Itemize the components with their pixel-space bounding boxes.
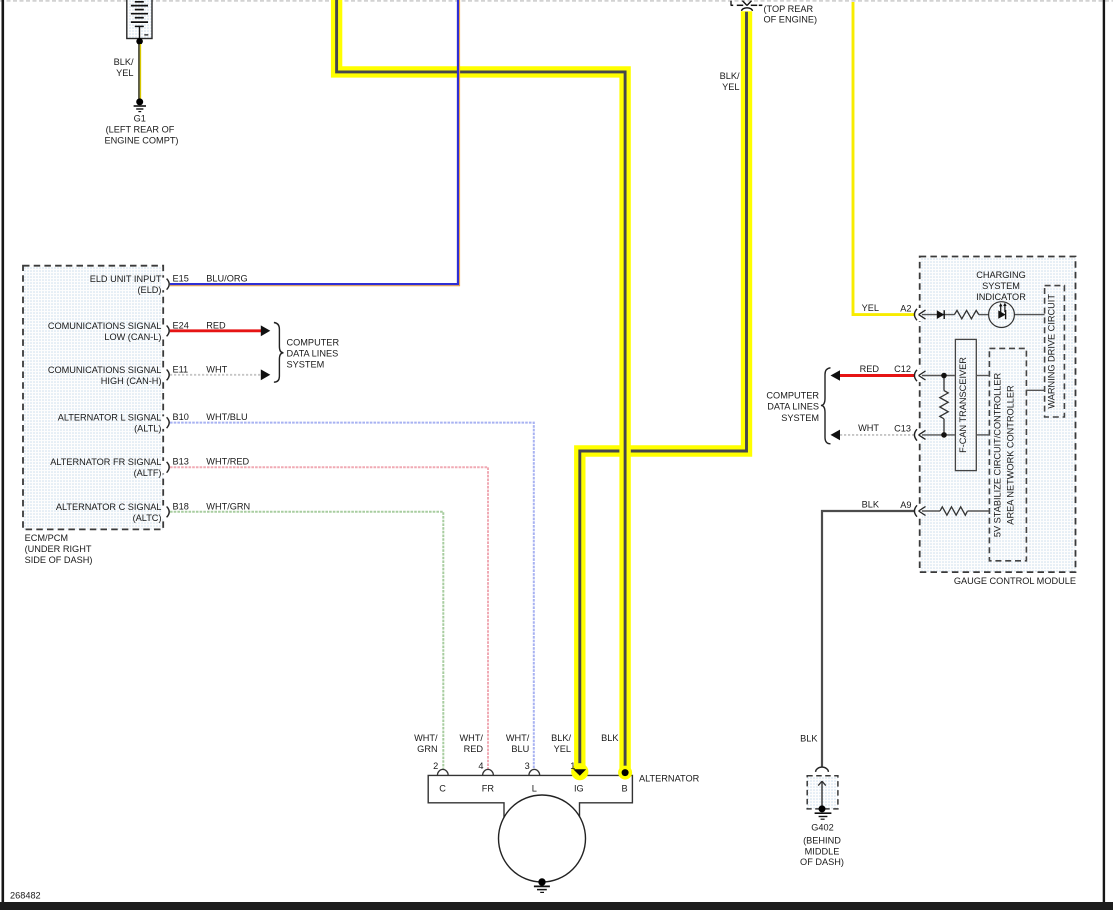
svg-text:BLK: BLK [800,734,818,744]
svg-text:DATA LINES: DATA LINES [287,349,339,359]
svg-text:ALTERNATOR FR SIGNAL: ALTERNATOR FR SIGNAL [50,457,161,467]
resistor (indicator) [954,310,978,318]
node: alternator B terminal [622,769,629,776]
svg-text:(ALTC): (ALTC) [133,513,162,523]
svg-text:1: 1 [570,761,575,771]
brace: computer data lines grouping (right) [821,368,831,444]
wire BLK/YEL highlighted: ignition feed to alternator IG terminal [580,11,747,772]
svg-text:(BEHIND: (BEHIND [803,835,841,845]
svg-text:268482: 268482 [10,891,41,901]
pin 3 bump (L) [529,769,540,775]
wire BLK highlighted: battery feed to alternator B terminal [337,0,625,770]
arrowhead CAN-L [261,325,271,336]
svg-text:WHT/: WHT/ [414,733,438,743]
svg-text:SIDE OF DASH): SIDE OF DASH) [25,555,93,565]
arrowhead C12 (left) [831,370,841,381]
ground G402 symbol [815,805,832,819]
svg-text:YEL: YEL [554,744,571,754]
gauge control module box [920,257,1076,573]
ECM/PCM module box [23,266,163,530]
svg-text:(UNDER RIGHT: (UNDER RIGHT [25,544,92,554]
svg-text:BLK/: BLK/ [720,71,740,81]
svg-text:RED: RED [860,364,880,374]
svg-text:DATA LINES: DATA LINES [767,402,819,412]
alternator case ground [534,878,550,892]
svg-text:C13: C13 [894,424,911,434]
pin bump G402 [816,767,829,772]
svg-text:GAUGE CONTROL MODULE: GAUGE CONTROL MODULE [954,576,1076,586]
wire RED to gauge pin C12 [840,374,915,377]
svg-text:SYSTEM: SYSTEM [982,281,1020,291]
arrowhead C13 (left) [831,430,841,441]
pin E24 [161,320,189,337]
pin A9 [914,504,925,517]
svg-text:COMPUTER: COMPUTER [766,391,819,401]
pin bump at connector [742,8,753,11]
svg-text:ECM/PCM: ECM/PCM [25,533,68,543]
diode [937,310,944,319]
svg-text:B13: B13 [173,457,189,467]
svg-text:RED: RED [206,320,226,330]
svg-text:(LEFT REAR OF: (LEFT REAR OF [106,125,175,135]
svg-text:B: B [622,784,628,794]
wire BLU/ORG from ECM pin E15 (runs up off page) [170,0,460,286]
svg-text:AREA NETWORK CONTROLLER: AREA NETWORK CONTROLLER [1006,385,1016,525]
svg-text:WHT: WHT [858,423,879,433]
right frame border [1103,0,1105,902]
charging system indicator LED [989,302,1015,328]
svg-text:(ALTF): (ALTF) [134,468,162,478]
node: junction on C13 line [941,432,947,438]
arrowhead CAN-H [261,369,271,380]
wire labels above alternator [414,733,619,754]
svg-text:ALTERNATOR L SIGNAL: ALTERNATOR L SIGNAL [58,413,162,423]
gauge module wire labels [858,303,911,510]
svg-text:WARNING DRIVE CIRCUIT: WARNING DRIVE CIRCUIT [1047,294,1057,409]
svg-text:G402: G402 [811,823,833,833]
svg-text:YEL: YEL [862,303,879,313]
svg-text:CHARGING: CHARGING [976,270,1026,280]
svg-text:WHT/GRN: WHT/GRN [206,501,250,511]
warning drive circuit box [1045,286,1065,417]
svg-text:RED: RED [464,744,484,754]
svg-text:HIGH (CAN-H): HIGH (CAN-H) [101,376,162,386]
5v stabilize controller box [989,348,1026,560]
svg-text:C12: C12 [894,364,911,374]
svg-text:4: 4 [478,761,483,771]
wire WHT to gauge pin C13 [840,434,915,436]
pin B13 [161,457,189,474]
wire WHT/RED from ECM pin B13 to alternator FR [170,467,488,769]
top page border (dashed) [0,0,1113,2]
svg-text:5V STABILIZE CIRCUIT/CONTROLLE: 5V STABILIZE CIRCUIT/CONTROLLER [993,373,1003,538]
wire WHT/BLU from ECM pin B10 to alternator L [170,423,534,770]
svg-text:LOW (CAN-L): LOW (CAN-L) [104,332,161,342]
svg-text:BLU/ORG: BLU/ORG [206,273,247,283]
svg-text:(TOP REAR: (TOP REAR [764,4,814,14]
alternator pin numbers [433,761,575,771]
pin E11 [161,364,188,381]
svg-text:SYSTEM: SYSTEM [781,413,819,423]
pin B18 [161,501,189,518]
wire WHT (CAN-H) [170,374,261,376]
wire C13 internal [919,434,956,436]
wire BLK from gauge pin A9 to ground G402 [822,511,915,768]
ground G1 [134,98,146,111]
bottom status bar [0,902,1113,910]
wire YEL to gauge module pin A2 [853,2,915,315]
ground G402 box [807,776,838,809]
svg-text:3: 3 [525,761,530,771]
svg-text:ENGINE COMPT): ENGINE COMPT) [104,136,178,146]
svg-text:BLK/: BLK/ [551,733,571,743]
wire C12 internal [919,375,956,377]
svg-text:2: 2 [433,761,438,771]
left frame border [2,0,5,902]
IG wire terminal arrow [573,769,586,776]
wires F-CAN to 5V controller [976,376,989,435]
svg-text:FR: FR [482,784,495,794]
node: junction on C12 line [941,373,947,379]
pin C13 [914,428,925,441]
svg-text:BLK/: BLK/ [114,57,134,67]
wire 5V controller to warning drive circuit [1026,389,1044,391]
svg-text:WHT/: WHT/ [460,733,484,743]
termination resistor between C12 and C13 [940,376,948,435]
IG wire yellow bulge [571,763,588,780]
svg-text:COMPUTER: COMPUTER [287,338,340,348]
svg-text:A2: A2 [900,303,911,313]
svg-text:YEL: YEL [722,82,739,92]
svg-text:BLK: BLK [862,499,880,509]
pin 2 bump (C) [437,769,448,775]
pin 4 bump (FR) [483,769,494,775]
pin A2 [914,308,925,321]
B terminal yellow halo [618,766,632,780]
svg-text:ALTERNATOR C SIGNAL: ALTERNATOR C SIGNAL [56,502,162,512]
wire BLK/YEL battery to ground G1 [139,44,141,99]
svg-text:B10: B10 [173,412,189,422]
svg-text:A9: A9 [900,500,911,510]
svg-text:WHT/BLU: WHT/BLU [206,412,247,422]
svg-text:E24: E24 [173,320,189,330]
pin E15 [161,273,189,290]
svg-text:G1: G1 [134,114,146,124]
svg-text:C: C [439,784,446,794]
wire WHT/GRN from ECM pin B18 to alternator C [170,512,443,770]
svg-text:BLU: BLU [511,744,529,754]
connector C135 (top rear of engine), cut off at top [731,1,763,6]
svg-text:OF DASH): OF DASH) [800,857,844,867]
svg-text:INDICATOR: INDICATOR [976,292,1026,302]
svg-text:F-CAN TRANSCEIVER: F-CAN TRANSCEIVER [958,357,968,453]
svg-text:WHT/: WHT/ [506,733,530,743]
f-can transceiver box [955,339,976,470]
pin B10 [161,412,189,429]
svg-text:L: L [532,784,537,794]
brace: computer data lines grouping (left) [274,323,284,383]
svg-text:WHT: WHT [206,364,227,374]
ECM internal labels [48,274,162,523]
wire A9 internal with resistor [919,507,990,515]
svg-text:E15: E15 [173,273,189,283]
svg-text:E11: E11 [173,364,189,374]
svg-text:IG: IG [574,784,584,794]
svg-text:ALTERNATOR: ALTERNATOR [639,774,700,784]
svg-text:COMUNICATIONS SIGNAL: COMUNICATIONS SIGNAL [48,321,162,331]
svg-text:BLK: BLK [601,733,619,743]
svg-text:SYSTEM: SYSTEM [287,360,325,370]
node: battery negative terminal [136,38,143,45]
svg-text:YEL: YEL [116,68,133,78]
battery (top left, cut off at top) [127,0,152,39]
svg-text:MIDDLE: MIDDLE [805,846,840,856]
indicator branch wire A2 [919,314,1045,316]
pin 1 bump (IG) [574,769,585,775]
svg-text:WHT/RED: WHT/RED [206,457,249,467]
alternator body circle [499,795,586,882]
svg-text:(ALTL): (ALTL) [134,424,161,434]
pin C12 [914,369,925,382]
svg-text:(ELD): (ELD) [138,285,162,295]
svg-text:GRN: GRN [417,744,437,754]
svg-text:B18: B18 [173,501,189,511]
svg-text:COMUNICATIONS SIGNAL: COMUNICATIONS SIGNAL [48,365,162,375]
wire RED (CAN-L) [170,329,261,332]
svg-text:OF ENGINE): OF ENGINE) [764,15,818,25]
alternator connector box [428,775,632,817]
alternator pin letters [439,784,627,794]
svg-text:ELD UNIT INPUT: ELD UNIT INPUT [90,274,162,284]
